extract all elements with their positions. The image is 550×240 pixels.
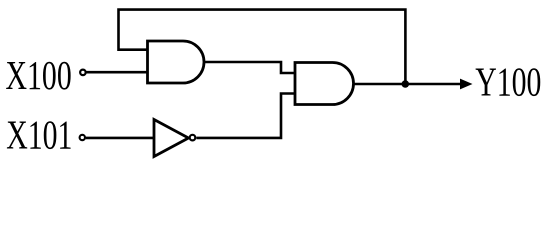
inverter (NOT gate) bbox=[154, 120, 189, 157]
svg-text:Y100: Y100 bbox=[475, 59, 541, 105]
svg-text:X100: X100 bbox=[6, 52, 72, 98]
terminal circle X100 bbox=[80, 70, 86, 76]
wire AND1 output to AND2 top input bbox=[204, 62, 295, 73]
wire X101 input bbox=[86, 137, 154, 140]
AND gate 2 bbox=[295, 63, 354, 105]
wire AND2 output to Y100 bbox=[354, 83, 463, 86]
junction dot (node Y100 feedback) bbox=[402, 80, 410, 88]
terminal circle X101 bbox=[80, 135, 85, 140]
wire inverter output to AND2 bottom input bbox=[196, 94, 295, 138]
AND gate 1 bbox=[148, 41, 205, 83]
wire feedback loop (top) bbox=[119, 10, 406, 84]
arrowhead Y100 bbox=[460, 79, 473, 90]
inverter bubble bbox=[190, 135, 196, 141]
wire X100 input bbox=[87, 71, 148, 74]
svg-text:X101: X101 bbox=[6, 112, 72, 158]
